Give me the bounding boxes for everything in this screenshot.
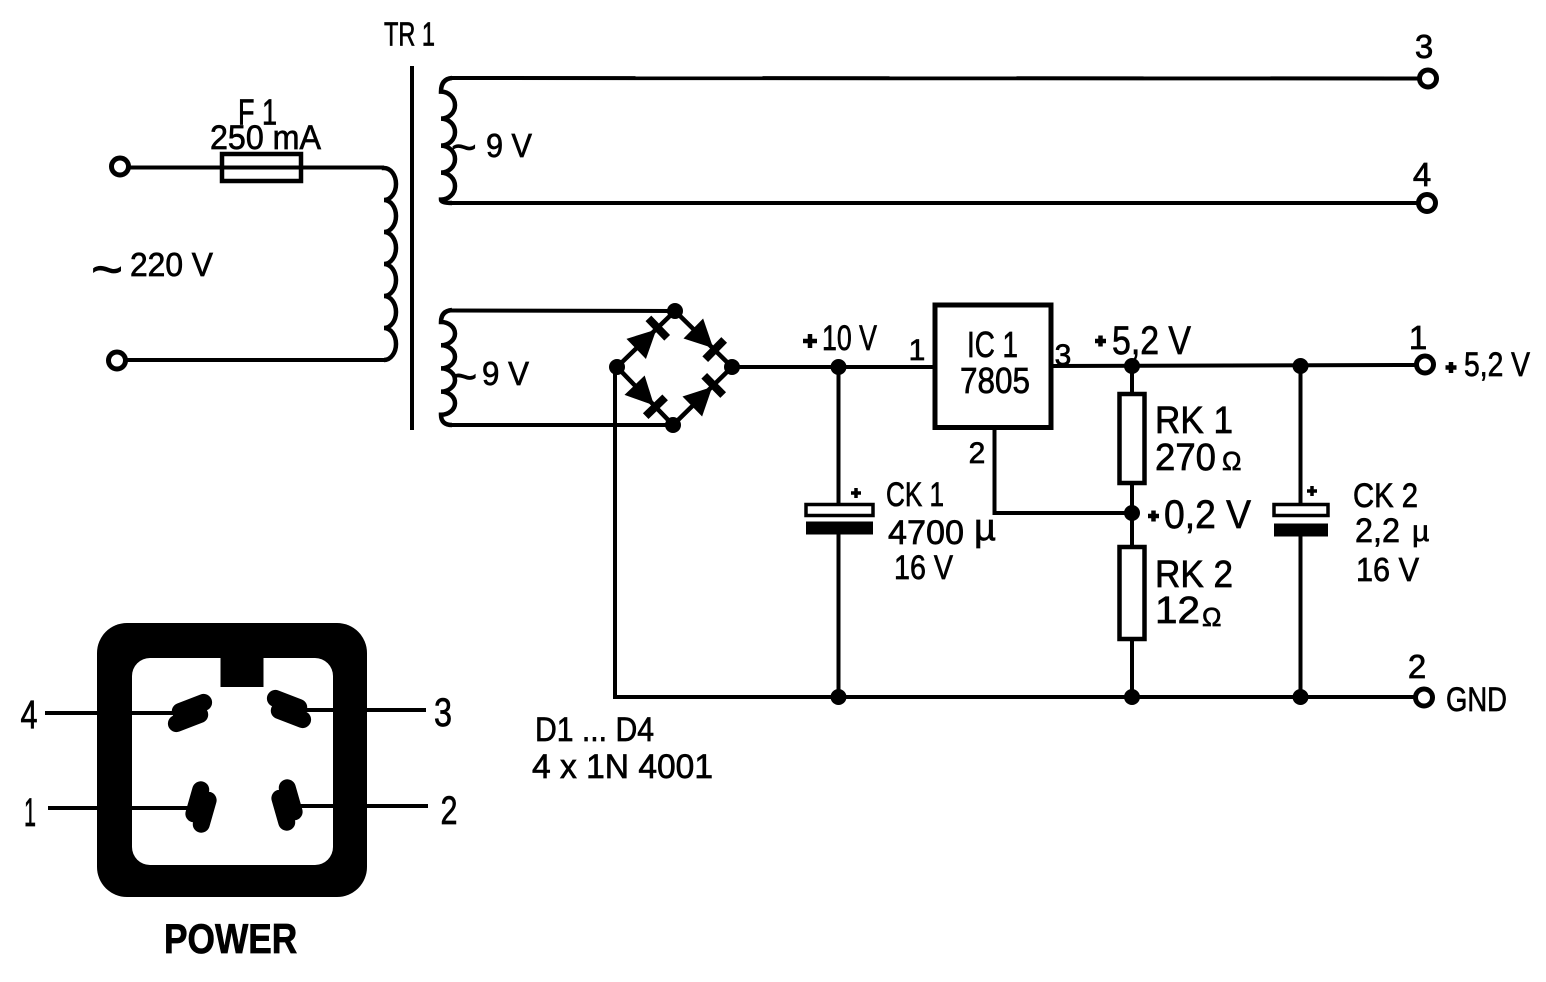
resistor RK1 — [1120, 394, 1145, 483]
svg-text:270: 270 — [1155, 437, 1216, 479]
terminal 2 GND — [1416, 689, 1433, 706]
wire CK2 lower — [1299, 535, 1303, 697]
wire IC1 pin2 — [995, 427, 1129, 513]
svg-text:GND: GND — [1446, 681, 1507, 719]
node +10V — [831, 359, 847, 375]
svg-text:Ω: Ω — [1202, 602, 1221, 632]
svg-text:1: 1 — [24, 791, 36, 835]
svg-text:9 V: 9 V — [482, 355, 529, 392]
node bridge bottom — [665, 417, 681, 433]
POWER connector inner window — [132, 658, 333, 865]
fuse F1 — [222, 154, 301, 181]
svg-text:9 V: 9 V — [486, 127, 532, 164]
terminal 4 — [1419, 195, 1436, 212]
svg-text:CK 1: CK 1 — [886, 476, 944, 514]
terminal 1 — [1417, 356, 1434, 373]
svg-text:Ω: Ω — [1222, 446, 1241, 476]
bridge rectifier D1..D4 edges — [617, 311, 732, 425]
wire CK1 upper — [837, 367, 841, 506]
label +10 V — [803, 334, 817, 348]
connector pin bottom-left — [181, 779, 221, 835]
svg-text:~: ~ — [451, 351, 477, 402]
wire input top to primary — [129, 166, 384, 170]
node CK2 ground — [1293, 689, 1309, 705]
svg-text:10 V: 10 V — [822, 319, 878, 358]
diode D3 (left to bottom) — [625, 375, 669, 419]
terminal input top — [112, 158, 129, 175]
wire RK1 top — [1130, 366, 1134, 394]
svg-text:4: 4 — [21, 693, 38, 737]
node RK2 ground — [1124, 689, 1140, 705]
node +5,2V CK2 — [1293, 358, 1309, 374]
terminal 3 — [1420, 70, 1437, 87]
svg-text:~: ~ — [91, 238, 123, 300]
wire lower secondary bottom to bridge — [450, 423, 670, 427]
svg-text:CK 2: CK 2 — [1353, 477, 1418, 515]
label +5,2 V top — [1095, 336, 1106, 347]
diode D4 (bottom to right) — [682, 373, 726, 417]
svg-text:D1 ... D4: D1 ... D4 — [535, 711, 654, 749]
wire CK2 upper — [1299, 366, 1303, 506]
connector pin top-left — [162, 691, 218, 734]
wire RK1 bottom — [1130, 483, 1134, 547]
svg-text:RK 1: RK 1 — [1155, 400, 1233, 442]
node bridge top — [667, 303, 683, 319]
svg-text:IC 1: IC 1 — [967, 324, 1018, 365]
terminal input bottom — [109, 352, 126, 369]
svg-text:1: 1 — [909, 334, 926, 367]
svg-text:0,2 V: 0,2 V — [1164, 493, 1251, 537]
svg-text:12: 12 — [1155, 590, 1200, 632]
svg-text:250 mA: 250 mA — [210, 119, 321, 157]
diode D1 (left to top) — [626, 315, 670, 359]
svg-text:2,2: 2,2 — [1355, 512, 1400, 550]
svg-text:4 x 1N 4001: 4 x 1N 4001 — [532, 748, 713, 786]
wire IC1 pin3 to terminal 1 — [1051, 365, 1416, 366]
CK2 plus sign — [1307, 486, 1317, 496]
svg-text:POWER: POWER — [164, 916, 297, 963]
capacitor CK2 plate + — [1274, 505, 1328, 516]
lead pin 4 — [45, 711, 195, 715]
svg-text:5,2 V: 5,2 V — [1112, 319, 1191, 363]
label +0,2 V — [1148, 511, 1159, 522]
wire upper secondary bottom to terminal 4 — [450, 201, 1418, 205]
connector pin top-right — [261, 687, 317, 730]
POWER connector outer frame — [97, 623, 367, 897]
svg-text:3: 3 — [434, 691, 452, 735]
svg-text:TR 1: TR 1 — [384, 16, 435, 53]
wire CK1 lower — [837, 533, 841, 697]
wire input bottom to primary — [127, 358, 384, 362]
svg-text:4: 4 — [1413, 156, 1431, 193]
connector pin bottom-right — [267, 777, 307, 833]
wire lower secondary top to bridge — [450, 309, 672, 314]
capacitor CK2 plate - — [1274, 524, 1328, 537]
node +0,2V — [1124, 505, 1140, 521]
label +5,2 V right — [1446, 362, 1457, 373]
svg-text:4700: 4700 — [888, 514, 964, 552]
lead pin 2 — [290, 804, 428, 808]
node +5,2V RK1 — [1124, 358, 1140, 374]
secondary winding upper ~9V — [441, 78, 455, 203]
node bridge right — [724, 359, 740, 375]
wire ground rail from bridge left — [615, 367, 1416, 697]
wire upper secondary top to terminal 3 — [450, 76, 1419, 81]
svg-text:~: ~ — [451, 123, 477, 172]
svg-text:220 V: 220 V — [130, 246, 213, 283]
CK1 plus sign — [851, 488, 861, 498]
svg-text:1: 1 — [1409, 319, 1427, 356]
lead pin 1 — [48, 806, 205, 810]
svg-text:5,2 V: 5,2 V — [1464, 346, 1530, 384]
svg-text:µ: µ — [1412, 515, 1429, 548]
op IC1 7805 box — [935, 305, 1051, 428]
wire bridge right to IC1 pin1 — [736, 365, 935, 369]
secondary winding lower ~9V — [441, 310, 455, 425]
svg-text:2: 2 — [1408, 648, 1426, 685]
lead pin 3 — [295, 708, 426, 712]
transformer core — [410, 66, 414, 430]
wire RK2 bottom — [1130, 639, 1134, 697]
svg-text:3: 3 — [1415, 28, 1433, 65]
primary winding TR1 — [384, 168, 396, 361]
capacitor CK1 plate - — [806, 522, 873, 535]
diode D2 (top to right) — [683, 319, 727, 363]
node CK1 ground — [831, 689, 847, 705]
svg-text:16 V: 16 V — [894, 549, 953, 587]
svg-text:2: 2 — [969, 437, 986, 470]
resistor RK2 — [1120, 547, 1145, 639]
POWER connector key notch — [221, 656, 264, 687]
node bridge left — [609, 359, 625, 375]
svg-text:2: 2 — [441, 789, 458, 833]
svg-text:7805: 7805 — [960, 360, 1030, 401]
svg-text:16 V: 16 V — [1356, 551, 1419, 588]
capacitor CK1 plate + — [806, 505, 873, 516]
